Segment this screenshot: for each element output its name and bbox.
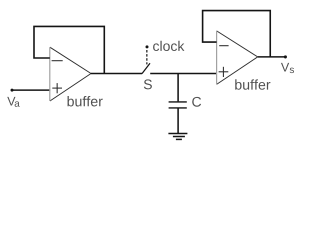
label buffer1 [68,96,103,106]
op-amp U2 buffer triangle [217,31,258,85]
capacitor C plates [169,102,187,108]
label buffer2 [235,79,270,89]
op-amp U1 buffer triangle [50,47,91,101]
feedback wire U2 loop [203,11,271,57]
label Vs_s [290,68,294,73]
label S [144,79,152,89]
op-amp U1 minus sign [52,60,63,62]
op-amp U2 plus sign [219,67,229,77]
label Va_a [15,101,20,106]
wire capacitor bottom lead [177,108,179,133]
node Va input dot [11,89,14,92]
wire Va input to buffer1 plus input [12,89,50,91]
node Vs output dot [284,55,287,58]
wire capacitor top lead [177,74,179,102]
label Vs_V [281,63,289,72]
output wire U2 to Vs [258,56,286,58]
label C [192,97,201,107]
ground [168,134,187,140]
op-amp U1 plus sign [52,83,62,93]
clock dashed control line [146,50,148,64]
op-amp U2 minus sign [219,45,228,47]
clock dot [146,45,149,48]
wire switch to buffer2 plus input [150,73,217,75]
label Va_V [7,97,15,106]
switch S arm [142,63,150,73]
output wire U1 to switch [91,73,142,75]
label clock [153,41,184,51]
feedback wire U1 loop [34,26,104,73]
